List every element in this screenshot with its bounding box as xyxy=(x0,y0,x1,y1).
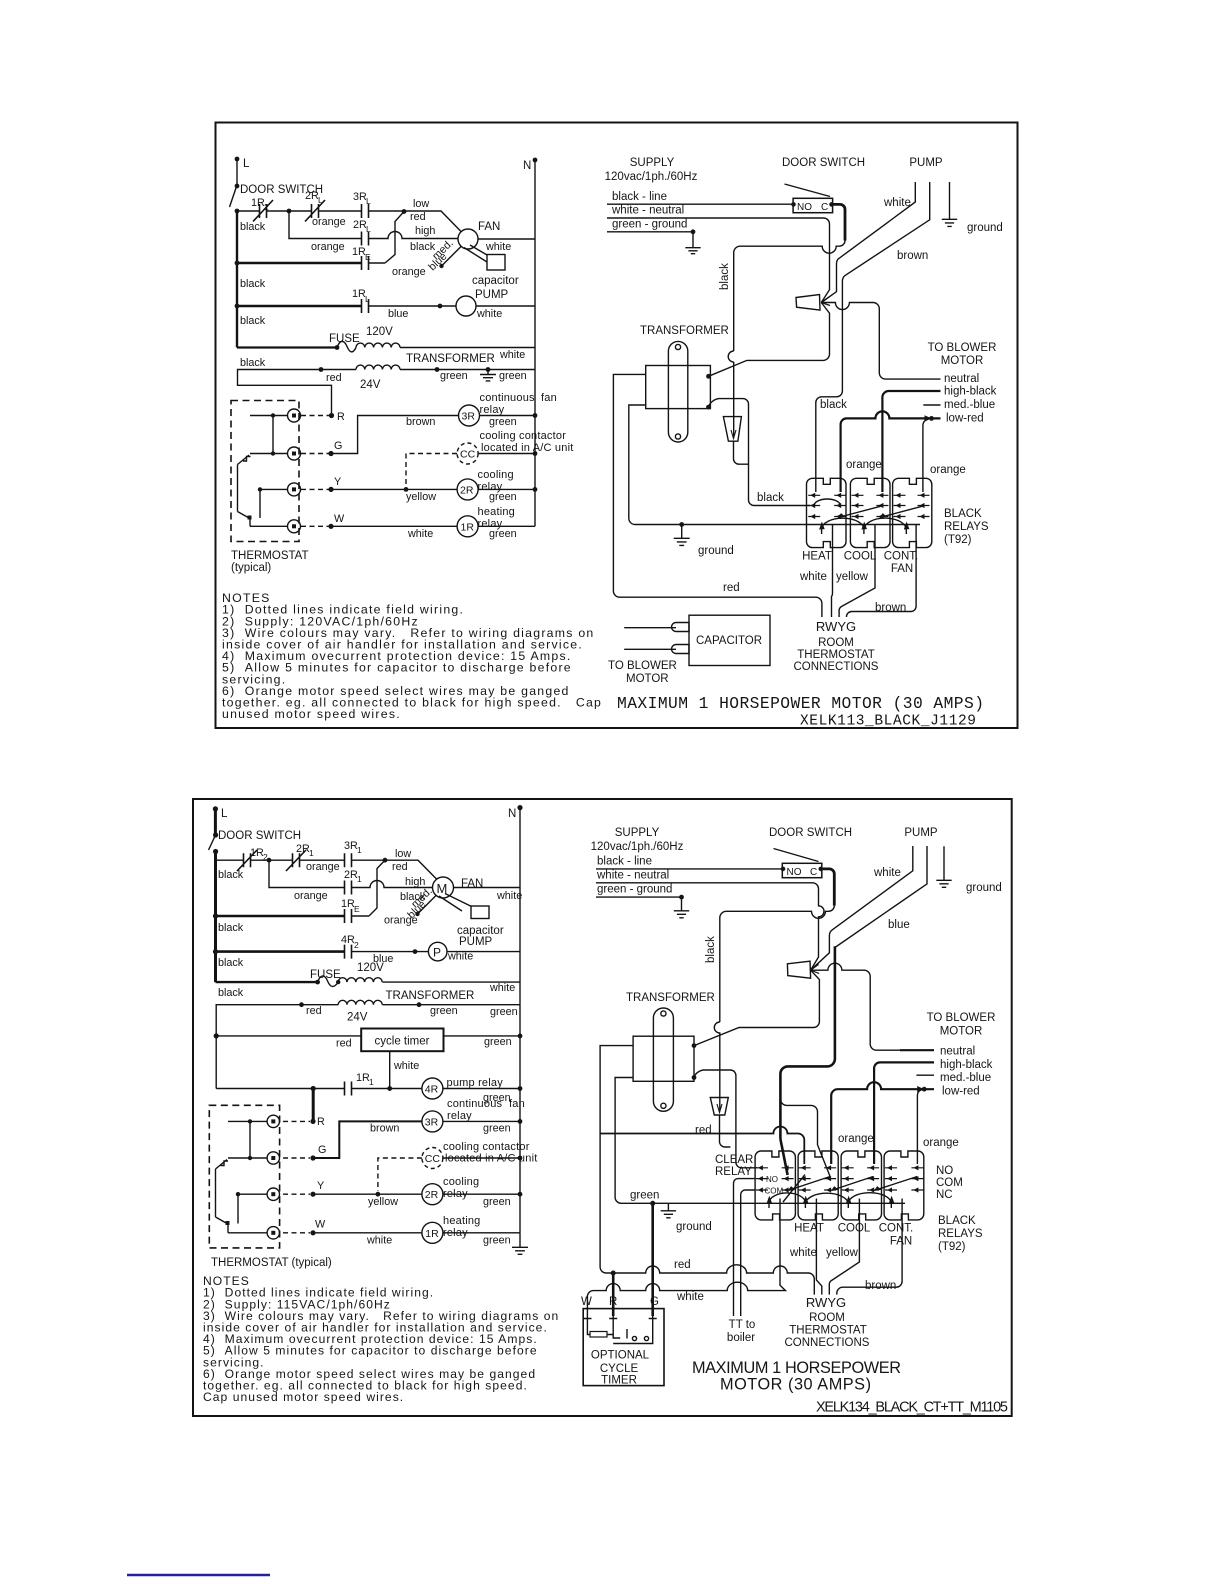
svg-text:black - line: black - line xyxy=(612,191,667,203)
relay bottom pins xyxy=(822,525,917,535)
junction row1 tap p2 xyxy=(383,858,388,863)
wire W dashed to thermostat xyxy=(301,525,329,527)
capacitor C3 p2 xyxy=(457,906,504,937)
svg-text:120V: 120V xyxy=(366,326,393,338)
svg-text:MOTOR: MOTOR xyxy=(626,673,669,685)
labels row3 p2 xyxy=(218,869,418,934)
svg-text:black: black xyxy=(820,399,847,411)
funnel connector p2 xyxy=(710,1098,728,1116)
wire row4 pump xyxy=(237,305,362,307)
svg-text:2: 2 xyxy=(354,940,359,950)
svg-text:green: green xyxy=(430,1005,458,1017)
svg-text:yellow: yellow xyxy=(826,1247,859,1259)
contact 2RL row2 xyxy=(362,232,369,246)
wire fuse row p2 xyxy=(216,981,318,983)
label supply xyxy=(605,157,698,231)
fuse F2 xyxy=(318,976,339,987)
wire row3 riser p2 xyxy=(369,860,385,916)
wire low-red orange branch xyxy=(841,411,941,492)
svg-text:W: W xyxy=(334,513,345,525)
wire Y row xyxy=(331,488,457,490)
label title panel2 xyxy=(692,1359,1008,1416)
svg-text:boiler: boiler xyxy=(727,1332,755,1344)
ground supply xyxy=(685,229,700,253)
junction door switch top xyxy=(235,184,240,189)
svg-text:W: W xyxy=(581,1296,592,1308)
svg-text:RWYG: RWYG xyxy=(806,1295,846,1310)
svg-text:pump relay: pump relay xyxy=(447,1077,504,1089)
wire G to optional timer thick xyxy=(651,1203,654,1316)
wire transformer black to clear relay p2 xyxy=(694,1070,757,1168)
svg-text:Cap unused motor speed wires.: Cap unused motor speed wires. xyxy=(203,1390,404,1404)
motor PUMP xyxy=(456,289,509,320)
labels fuse p2 xyxy=(310,962,384,981)
wire Y dashed p2 xyxy=(283,1193,310,1195)
svg-text:orange: orange xyxy=(846,459,882,471)
svg-text:yellow: yellow xyxy=(406,491,436,503)
wire CC dashed to Y junction xyxy=(406,454,457,487)
label FUSE 120V xyxy=(329,326,393,345)
relay coil arcs bottom green xyxy=(819,518,909,530)
wire branch thick to heat coil riser xyxy=(780,1099,830,1177)
svg-text:ROOM: ROOM xyxy=(809,1312,845,1324)
svg-text:1: 1 xyxy=(369,1077,374,1087)
relay 4R xyxy=(422,1078,443,1099)
motor FAN xyxy=(458,221,500,249)
terminal R circle xyxy=(288,409,301,422)
wedge connector junction xyxy=(796,295,830,311)
wire transformer red stub xyxy=(613,374,822,617)
relay K5 COOL box xyxy=(841,1151,881,1220)
svg-text:1R: 1R xyxy=(356,1072,370,1084)
svg-text:brown: brown xyxy=(865,1280,896,1292)
wire G dashed to thermostat xyxy=(301,453,329,455)
wire wedge to neutral riser xyxy=(821,303,940,380)
wire thick diagonal into clear relay NO xyxy=(780,1139,787,1175)
svg-text:neutral: neutral xyxy=(944,373,979,385)
svg-text:green: green xyxy=(490,1006,518,1018)
relay 1R xyxy=(457,516,478,537)
svg-text:orange: orange xyxy=(838,1133,874,1145)
relay K0 CLEAR box xyxy=(755,1151,795,1220)
node G p2 xyxy=(310,1144,326,1161)
svg-text:brown: brown xyxy=(370,1123,399,1135)
relay bottom pins p2 xyxy=(769,1199,902,1209)
svg-text:green: green xyxy=(499,370,527,382)
wire brown jog to HEAT coil xyxy=(816,391,843,492)
wire yellow K2 down xyxy=(839,534,875,617)
transformer T1 secondary coil xyxy=(356,365,400,369)
svg-text:Y: Y xyxy=(317,1180,324,1192)
terminal G circle xyxy=(288,447,301,460)
svg-text:fan: fan xyxy=(509,1098,525,1110)
relay blade K1-K2 xyxy=(838,506,883,518)
svg-text:HEAT: HEAT xyxy=(794,1223,824,1235)
svg-text:N: N xyxy=(508,808,516,820)
terminal R circle p2 xyxy=(267,1115,279,1127)
svg-text:DOOR SWITCH: DOOR SWITCH xyxy=(218,830,301,842)
terminal W circle p2 xyxy=(267,1227,279,1239)
label RWYG room thermostat connections xyxy=(794,619,879,673)
wire funnel output xyxy=(734,441,749,464)
svg-text:white: white xyxy=(366,1235,392,1247)
svg-text:3R: 3R xyxy=(425,1117,439,1129)
contact 1RE xyxy=(362,256,369,270)
svg-text:black: black xyxy=(705,936,717,963)
junction door switch p2 xyxy=(213,832,218,837)
svg-text:black: black xyxy=(218,987,244,999)
svg-text:SUPPLY: SUPPLY xyxy=(615,827,660,839)
wire white K1 down xyxy=(832,534,833,617)
contactor CC p2 xyxy=(422,1148,443,1169)
wire 2R to rail p2 xyxy=(443,1193,520,1195)
svg-text:black: black xyxy=(240,278,266,290)
svg-text:CC: CC xyxy=(460,449,476,461)
contact 1RL xyxy=(362,299,369,313)
wire pump white lead p2 xyxy=(811,846,913,970)
wire CC to rail p2 xyxy=(443,1157,520,1159)
svg-text:L: L xyxy=(318,195,323,205)
svg-text:white: white xyxy=(799,571,827,583)
wire red branch to heat relay p2 xyxy=(600,1127,804,1165)
svg-text:med.-blue: med.-blue xyxy=(944,399,995,411)
wire row2 high-black xyxy=(289,211,458,239)
svg-text:THERMOSTAT (typical): THERMOSTAT (typical) xyxy=(211,1257,332,1269)
svg-text:THERMOSTAT: THERMOSTAT xyxy=(797,649,875,661)
svg-text:orange: orange xyxy=(294,890,328,902)
svg-text:green: green xyxy=(630,1190,659,1202)
transformer T3 secondary coil xyxy=(338,1000,382,1004)
svg-text:black: black xyxy=(240,221,266,233)
relay 3R p2 xyxy=(422,1111,443,1132)
door switch DS1 blade xyxy=(785,184,831,197)
label 3RL xyxy=(353,191,371,206)
label 3R1 p2 xyxy=(344,840,362,855)
svg-text:ground: ground xyxy=(676,1221,712,1233)
svg-text:MOTOR: MOTOR xyxy=(940,1026,983,1038)
labels 3R row p2 xyxy=(370,1098,525,1135)
junction rail row4 p2 xyxy=(213,949,218,954)
funnel connector xyxy=(723,417,741,442)
svg-text:high-black: high-black xyxy=(944,386,997,398)
optional timer internals xyxy=(584,1316,657,1344)
wire wedge down to transformer feed xyxy=(709,303,830,377)
wire neutral thick stub xyxy=(900,1049,934,1051)
svg-text:1R: 1R xyxy=(425,1228,439,1240)
svg-text:R: R xyxy=(337,411,345,423)
thermostat internals p2 xyxy=(216,1119,268,1233)
junction row1/row2 xyxy=(287,209,292,214)
svg-text:R: R xyxy=(317,1116,325,1128)
motor PUMP P p2 xyxy=(428,936,492,963)
svg-text:DOOR SWITCH: DOOR SWITCH xyxy=(769,827,852,839)
junction fuse xyxy=(335,345,340,350)
svg-text:SUPPLY: SUPPLY xyxy=(630,157,675,169)
labels NO COM inside K0 xyxy=(765,1175,784,1196)
svg-text:orange: orange xyxy=(311,241,345,253)
svg-text:L: L xyxy=(366,196,371,206)
cycle timer CT1 xyxy=(214,1029,523,1052)
svg-text:P: P xyxy=(433,946,441,960)
svg-text:heating: heating xyxy=(443,1215,481,1227)
wire 3R to rail xyxy=(480,415,536,417)
svg-text:W: W xyxy=(315,1219,326,1231)
svg-text:G: G xyxy=(650,1296,659,1308)
contact 2RL row1 xyxy=(305,200,325,222)
svg-text:DOOR SWITCH: DOOR SWITCH xyxy=(782,157,865,169)
svg-text:low-red: low-red xyxy=(946,413,984,425)
wire 3R to rail p2 xyxy=(443,1120,520,1122)
motor FAN M p2 xyxy=(433,877,484,898)
svg-text:low: low xyxy=(413,198,429,210)
svg-text:continuous: continuous xyxy=(480,392,536,404)
label med blue rotated xyxy=(426,237,455,273)
svg-text:blue: blue xyxy=(388,308,408,320)
labels CC row xyxy=(480,430,574,454)
svg-text:24V: 24V xyxy=(347,1012,368,1024)
thermostat internal wiring xyxy=(238,413,288,526)
svg-text:low: low xyxy=(395,848,411,860)
svg-text:3R: 3R xyxy=(344,840,358,852)
svg-text:orange: orange xyxy=(392,266,426,278)
svg-text:PUMP: PUMP xyxy=(475,289,509,301)
wire pump blue lead p2 xyxy=(835,846,927,948)
wire 2R to rail xyxy=(478,488,535,490)
svg-text:red: red xyxy=(674,1259,691,1271)
wire R dashed to thermostat xyxy=(301,415,329,417)
wire med-blue stub xyxy=(923,404,940,406)
relay K1 coil arc xyxy=(814,499,840,505)
svg-text:relay: relay xyxy=(478,518,503,530)
svg-text:NO: NO xyxy=(936,1165,953,1177)
svg-text:CYCLE: CYCLE xyxy=(600,1363,639,1375)
svg-text:orange: orange xyxy=(306,861,340,873)
svg-text:MAXIMUM 1 HORSEPOWER: MAXIMUM 1 HORSEPOWER xyxy=(692,1359,901,1377)
wire black vertical to funnel xyxy=(733,362,735,436)
blue underline mark bottom left xyxy=(127,1574,270,1576)
svg-text:COM: COM xyxy=(936,1177,963,1189)
svg-text:PUMP: PUMP xyxy=(909,157,943,169)
relay pins K5 xyxy=(842,1165,879,1192)
svg-text:white: white xyxy=(873,867,901,879)
terminal G circle p2 xyxy=(267,1152,279,1164)
label thermostat xyxy=(231,550,309,574)
wire neutral p2 xyxy=(811,963,934,1050)
label 1R2 xyxy=(251,197,269,212)
relay coil arcs bottom p2 xyxy=(767,1193,895,1204)
svg-text:black: black xyxy=(240,357,266,369)
labels 1R row p2 xyxy=(366,1215,511,1247)
wire 24V secondary row xyxy=(238,370,357,414)
wire row4 pump p2 xyxy=(216,950,345,953)
svg-text:NO: NO xyxy=(766,1175,778,1184)
wire TT NO from clear relay xyxy=(734,1179,756,1316)
svg-text:1R: 1R xyxy=(250,847,264,859)
svg-text:2R: 2R xyxy=(305,190,319,202)
junction 24v green xyxy=(435,367,440,372)
svg-text:med.-blue: med.-blue xyxy=(940,1072,991,1084)
label TT to boiler xyxy=(727,1319,755,1344)
wire capacitor leads p2 xyxy=(439,894,471,912)
ground pump p2 xyxy=(936,846,1002,894)
node R p2 xyxy=(310,1116,325,1128)
wire yellow cool relay down p2 xyxy=(829,1208,859,1295)
svg-text:white: white xyxy=(407,528,433,540)
wire med-blue stub p2 xyxy=(916,1074,934,1076)
svg-text:heating: heating xyxy=(478,506,516,518)
thermostat TSTAT2 box xyxy=(209,1105,279,1248)
svg-text:4R: 4R xyxy=(425,1084,439,1096)
relay pins K6 xyxy=(885,1165,923,1192)
door switch SW2 blade xyxy=(209,837,215,850)
wire transformer black secondary to relay xyxy=(709,399,811,506)
transformer T3 primary coil xyxy=(338,978,382,982)
svg-text:TRANSFORMER: TRANSFORMER xyxy=(626,992,715,1004)
wire row3 riser to row1 xyxy=(385,212,404,264)
junction yellow CC xyxy=(404,487,409,492)
svg-text:cooling: cooling xyxy=(478,469,514,481)
labels CC row p2 xyxy=(443,1141,537,1165)
junction row4 p2 xyxy=(413,949,418,954)
svg-text:black: black xyxy=(218,869,244,881)
svg-text:red: red xyxy=(410,211,426,223)
panel 2 border xyxy=(193,799,1012,1416)
wire G row and riser to 3R xyxy=(331,416,459,454)
wire row1 low-red xyxy=(237,211,461,232)
svg-text:CONNECTIONS: CONNECTIONS xyxy=(794,661,879,673)
svg-text:G: G xyxy=(334,440,342,452)
wire black hot horizontal p2 xyxy=(720,906,835,1022)
capacitor C1 xyxy=(472,255,519,288)
wire N rail xyxy=(534,160,536,526)
svg-text:THERMOSTAT: THERMOSTAT xyxy=(231,550,309,562)
wire 1R to rail p2 xyxy=(443,1232,520,1234)
label to blower motor xyxy=(928,342,997,425)
svg-text:XELK113_BLACK_J1129: XELK113_BLACK_J1129 xyxy=(800,714,976,730)
label 1R2 p2 xyxy=(250,847,268,862)
svg-text:TO BLOWER: TO BLOWER xyxy=(608,660,677,672)
wire 4R row p2 xyxy=(216,1088,520,1090)
labels 4R row xyxy=(447,1077,511,1104)
svg-text:PUMP: PUMP xyxy=(904,827,938,839)
svg-text:blue: blue xyxy=(888,919,910,931)
relay K6 CONT FAN box xyxy=(884,1151,924,1220)
wire green ground supply xyxy=(607,231,693,233)
wire junction to transformer primary p2 xyxy=(694,970,819,1045)
svg-text:NO: NO xyxy=(797,202,812,213)
node Y xyxy=(328,476,341,492)
door switch DS2 box xyxy=(781,863,823,878)
wire white neutral supply xyxy=(607,218,830,303)
ground 24V mid xyxy=(480,367,496,381)
relay blade K4-K5 xyxy=(831,1177,873,1191)
svg-text:CONNECTIONS: CONNECTIONS xyxy=(785,1337,870,1349)
svg-text:C: C xyxy=(810,867,817,878)
svg-text:white: white xyxy=(476,308,502,320)
wire 1R to rail xyxy=(478,525,535,527)
svg-text:black: black xyxy=(218,922,244,934)
svg-text:orange: orange xyxy=(312,216,346,228)
svg-text:green: green xyxy=(483,1235,511,1247)
relay 1R p2 xyxy=(422,1222,443,1243)
svg-text:relay: relay xyxy=(443,1227,468,1239)
svg-text:white - neutral: white - neutral xyxy=(596,870,669,882)
transformer T2 xyxy=(640,325,729,442)
svg-text:orange: orange xyxy=(930,464,966,476)
wire white heat relay down p2 xyxy=(816,1208,821,1295)
svg-text:C: C xyxy=(821,202,828,213)
wire black hot horizontal xyxy=(734,241,845,352)
svg-text:TRANSFORMER: TRANSFORMER xyxy=(406,353,495,365)
wire CC to rail xyxy=(478,453,535,455)
svg-text:ground: ground xyxy=(698,545,734,557)
wedge connector junction p2 xyxy=(787,961,819,978)
wire row3 orange p2 xyxy=(216,915,345,918)
label supply p2 xyxy=(591,827,684,896)
wire black line supply p2 xyxy=(596,868,783,870)
contact 1R2 xyxy=(253,200,273,222)
node L panel2 xyxy=(213,806,228,820)
node W p2 xyxy=(310,1219,326,1236)
junction row1 p2 xyxy=(267,858,272,863)
wire TT COM from clear relay xyxy=(741,1190,755,1316)
door switch DS2 blade xyxy=(774,849,819,862)
relay pins K0 xyxy=(756,1165,794,1192)
labels row4 p2 xyxy=(218,934,393,969)
wire high-black xyxy=(882,391,940,492)
wire C stub thick p2 xyxy=(821,869,835,906)
svg-text:COOL: COOL xyxy=(844,551,877,563)
svg-text:L: L xyxy=(366,224,371,234)
relay pins K3 xyxy=(894,493,930,519)
svg-text:capacitor: capacitor xyxy=(472,275,519,287)
relay pins K2 xyxy=(852,493,889,519)
svg-text:CONT.: CONT. xyxy=(879,1223,914,1235)
svg-text:black: black xyxy=(240,315,266,327)
svg-text:relay: relay xyxy=(443,1188,468,1200)
svg-text:red: red xyxy=(306,1005,322,1017)
svg-text:FAN: FAN xyxy=(478,221,500,233)
labels cycle timer row xyxy=(336,1036,512,1050)
ground supply p2 xyxy=(674,895,689,918)
svg-text:120vac/1ph./60Hz: 120vac/1ph./60Hz xyxy=(605,171,698,183)
svg-text:TRANSFORMER: TRANSFORMER xyxy=(640,325,729,337)
svg-text:brown: brown xyxy=(875,602,906,614)
relay pins K1 xyxy=(808,493,846,519)
door switch SW1 blade xyxy=(230,188,237,207)
svg-text:red: red xyxy=(326,372,342,384)
svg-text:1: 1 xyxy=(309,848,314,858)
contact 1R1 p2 xyxy=(345,1082,352,1096)
svg-text:RWYG: RWYG xyxy=(816,619,856,634)
node L xyxy=(235,157,250,170)
node N xyxy=(523,158,537,172)
wire left rail p2 xyxy=(214,852,217,983)
svg-text:black - line: black - line xyxy=(597,856,652,868)
junction 24v red xyxy=(319,367,324,372)
svg-text:NC: NC xyxy=(936,1189,953,1201)
svg-text:24V: 24V xyxy=(360,379,381,391)
panel 1 border xyxy=(216,123,1018,729)
svg-text:TRANSFORMER: TRANSFORMER xyxy=(386,990,475,1002)
svg-text:1: 1 xyxy=(357,845,362,855)
svg-text:cycle timer: cycle timer xyxy=(375,1036,430,1048)
svg-text:HEAT: HEAT xyxy=(802,551,832,563)
svg-text:2R: 2R xyxy=(425,1189,439,1201)
svg-text:yellow: yellow xyxy=(368,1196,398,1208)
svg-text:TT to: TT to xyxy=(729,1319,756,1331)
wire black vertical bump p2 xyxy=(714,1022,720,1111)
